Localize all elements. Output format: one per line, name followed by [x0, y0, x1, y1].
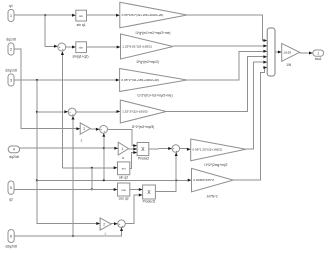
node d2q1 branch	[36, 79, 38, 81]
node dq2 junction	[103, 147, 105, 149]
svg-text:4: 4	[13, 148, 15, 152]
wire G6 out to Mux in6	[233, 68, 265, 181]
arrow into G6	[188, 179, 192, 182]
svg-text:dq1/dt: dq1/dt	[6, 38, 15, 42]
svg-text:l1*g*(m1+m2+mp/2+me): l1*g*(m1+m2+mp/2+me)	[136, 31, 171, 35]
arrow into Sum2 left	[64, 110, 68, 113]
wire gain L to Sum4	[111, 223, 114, 225]
svg-text:2: 2	[103, 222, 105, 226]
sum Sum2	[68, 108, 76, 116]
node d2q1 to J line	[36, 179, 38, 181]
wire cos q2 to Product1	[130, 189, 139, 191]
arrow into gain l1	[114, 147, 118, 150]
svg-text:sin q2: sin q2	[119, 175, 128, 179]
svg-text:6: 6	[10, 234, 12, 238]
gain G2 l2*g	[121, 34, 174, 59]
arrow into Mux in6	[263, 66, 267, 69]
wire G1 out to Mux in1	[187, 15, 264, 41]
svg-text:dq2/dt: dq2/dt	[9, 155, 18, 159]
wire gain 1/N to outport	[300, 52, 310, 54]
svg-text:sin: sin	[79, 14, 83, 18]
wire sin q1 to gain G1	[87, 14, 117, 16]
arrow into Sum2 bottom	[72, 116, 75, 120]
arrow into Sum3 bottom	[102, 133, 105, 137]
wire Sum3 to Product in1	[108, 129, 134, 145]
wire d2q1 into Sum2	[37, 111, 65, 113]
arrow into Product1 in2	[139, 194, 143, 197]
wire dq2 drop to J line	[103, 148, 105, 180]
arrow into Sum5 left	[168, 147, 172, 150]
svg-text:1: 1	[121, 147, 123, 151]
wire G2 out to Mux in2	[173, 45, 264, 47]
svg-text:Product1: Product1	[143, 200, 156, 204]
sum Sum4	[118, 220, 126, 228]
wire sin(q1+q2) to gain G2	[87, 46, 118, 48]
wire Product out to Sum5	[149, 148, 169, 151]
arrow into Product in1	[133, 144, 137, 147]
wire Mux to gain 1/N	[275, 51, 278, 53]
arrow into gain L	[96, 222, 100, 225]
svg-text:cos q2: cos q2	[119, 197, 129, 201]
wire d2q1 to gain G3	[14, 79, 116, 81]
svg-text:1: 1	[10, 14, 12, 18]
svg-text:+: +	[72, 112, 74, 116]
wire gain 2a to Sum3	[90, 128, 96, 130]
gain l1	[118, 142, 128, 155]
sum Sum5	[172, 145, 180, 153]
svg-text:0.95*1.25*(32+165/2): 0.95*1.25*(32+165/2)	[193, 147, 223, 151]
node q2 line junction	[91, 188, 93, 190]
node q1 branch	[44, 14, 46, 16]
arrow into sin q1	[72, 14, 76, 17]
svg-text:1/165: 1/165	[283, 50, 291, 54]
svg-text:0.95*9.81*(32+165+400/2+20): 0.95*9.81*(32+165+400/2+20)	[122, 13, 164, 17]
arrow into Mux in3	[263, 50, 267, 53]
svg-text:l1*l2*(2mg+m)/2: l1*l2*(2mg+m)/2	[205, 163, 228, 167]
svg-text:2: 2	[83, 127, 85, 131]
block sin q2	[118, 162, 130, 175]
inport 2 dq1/dt	[8, 43, 14, 55]
svg-text:1: 1	[317, 52, 319, 56]
wire dq2 to gain l1	[20, 147, 115, 149]
wire Sum1 to sin(q1+q2)	[66, 46, 73, 48]
node J line riser	[175, 179, 177, 181]
gain L 2b	[100, 218, 111, 230]
node J line dq2	[103, 179, 105, 181]
arrow into cos q2	[114, 188, 118, 191]
sum Sum3	[100, 125, 108, 133]
svg-text:l2^2*(m2+mp/3): l2^2*(m2+mp/3)	[132, 125, 155, 129]
svg-text:l1: l1	[122, 156, 125, 160]
arrow into Sum4 left	[114, 222, 118, 225]
arrow into Product1 in1	[139, 188, 143, 191]
svg-text:l1^2*(m1+m2+mp/2+me): l1^2*(m1+m2+mp/2+me)	[137, 94, 172, 98]
svg-text:Product: Product	[138, 157, 149, 161]
gain G3 l1^2	[120, 69, 187, 92]
block sin q1	[76, 10, 87, 21]
gain 1/N	[282, 43, 300, 61]
sum Sum1	[58, 43, 66, 51]
arrow into sin(q1+q2)	[72, 46, 76, 49]
gain G4 l2^2	[120, 100, 166, 123]
arrow into G4	[117, 110, 121, 113]
svg-text:3: 3	[10, 78, 12, 82]
svg-text:sin: sin	[79, 46, 83, 50]
svg-text:5: 5	[10, 186, 12, 190]
wire q2 to sin q2	[62, 167, 114, 169]
arrow into Mux in1	[263, 39, 267, 42]
wire J line d2q1 to gain G6	[37, 179, 188, 181]
gain G6 Jm*N^2	[192, 168, 234, 191]
outport 1 tau1	[313, 50, 324, 56]
wire d2q1 bus down to gain L	[37, 80, 97, 224]
mux Mux	[267, 28, 275, 76]
svg-text:q1: q1	[9, 4, 13, 8]
arrow into Mux in5	[263, 61, 267, 64]
block Product1	[143, 185, 156, 199]
arrow into G2	[117, 46, 121, 49]
wire Sum4 to Product1 in2	[125, 195, 139, 224]
arrow into Product in3	[133, 151, 137, 154]
inport 6 d2q2/dt	[8, 230, 14, 243]
wire d2q2 line into Sum4	[14, 231, 121, 236]
inport 1 q1	[8, 10, 14, 22]
gain G5 l1*l2	[191, 139, 246, 161]
svg-text:+: +	[121, 224, 123, 228]
wire q1 to sin q1	[14, 14, 72, 16]
wire gain l1 to Product in2	[129, 148, 134, 150]
wire Sum5 to gain G5	[180, 148, 188, 150]
wire Product1 out riser to Sum5	[155, 156, 176, 191]
arrow into Mux in4	[263, 55, 267, 58]
arrow into Sum4 bottom	[120, 228, 123, 232]
svg-text:+: +	[104, 130, 106, 134]
arrow into Product in2	[133, 148, 137, 151]
svg-text:tau1: tau1	[315, 57, 322, 61]
wire q2 riser into Sum1	[61, 55, 63, 168]
arrow into gain 1/N	[278, 51, 282, 54]
wire d2q2 riser into Sum2	[72, 120, 74, 236]
block sin(q1+q2)	[76, 42, 87, 53]
wire Sum2 to gain G4	[76, 111, 117, 113]
svg-text:sin: sin	[122, 167, 126, 171]
wire q2 to cos q2	[14, 188, 114, 190]
inport 5 q2	[8, 181, 14, 194]
gain 2a	[80, 123, 90, 134]
block Product	[137, 143, 149, 156]
wire sin q2 to Product in3	[130, 153, 134, 169]
arrow into Sum1 left	[54, 45, 58, 48]
svg-text:+: +	[176, 149, 178, 153]
wire G4 out to Mux in4	[166, 57, 263, 112]
arrow into Sum5 bottom	[175, 152, 178, 156]
node d2q2 junction	[72, 235, 74, 237]
node q2 on sin feed	[91, 167, 93, 169]
arrow into G3	[116, 79, 120, 82]
svg-text:q2: q2	[9, 198, 13, 202]
svg-text:0.95^2*(32+165+400/2+20): 0.95^2*(32+165+400/2+20)	[121, 78, 159, 82]
svg-text:l2*g*(m2+mp/2): l2*g*(m2+mp/2)	[137, 60, 159, 64]
wire G3 out to Mux in3	[187, 51, 264, 80]
svg-text:+: +	[59, 45, 61, 49]
svg-text:sin q1: sin q1	[77, 23, 86, 27]
arrow into sin q2	[114, 166, 118, 169]
svg-text:1.25^2*(32+165/3): 1.25^2*(32+165/3)	[122, 110, 147, 114]
inport 4 dq2/dt	[8, 146, 19, 153]
svg-text:+: +	[62, 48, 64, 52]
svg-text:+: +	[69, 110, 71, 114]
wire q2 riser short	[91, 168, 93, 190]
svg-text:0.00383*165^2: 0.00383*165^2	[193, 178, 214, 182]
wire q1 down to Sum1	[45, 15, 54, 46]
svg-text:cos: cos	[121, 188, 126, 192]
wire dq1 down and to gain 2a	[14, 49, 77, 129]
svg-text:Jm*N^2: Jm*N^2	[206, 195, 217, 199]
arrow into outport tau1	[309, 52, 313, 55]
node d2q1 to Sum2	[36, 111, 38, 113]
inport 3 d2q1/dt	[8, 74, 14, 86]
arrow into G1	[116, 14, 120, 17]
svg-text:+: +	[119, 222, 121, 226]
svg-text:d2q1/dt: d2q1/dt	[5, 69, 16, 73]
wire G5 out to Mux in5	[246, 62, 264, 149]
svg-text:+: +	[101, 127, 103, 131]
svg-text:sin(q1+q2): sin(q1+q2)	[72, 55, 88, 59]
svg-text:1.25*9.81*(32+165/2): 1.25*9.81*(32+165/2)	[122, 45, 152, 49]
arrow into gain 2a	[76, 127, 80, 130]
svg-text:2: 2	[10, 47, 12, 51]
wire dq2 riser into Sum3	[103, 137, 105, 148]
svg-text:1/N: 1/N	[286, 63, 292, 67]
arrow into Sum3 left	[96, 128, 100, 131]
arrow into G5	[187, 148, 191, 151]
svg-text:+: +	[173, 147, 175, 151]
svg-text:d2q2/dt: d2q2/dt	[6, 245, 17, 249]
gain G1 l1*g	[120, 2, 187, 28]
arrow into Mux in2	[263, 44, 267, 47]
block cos q2	[118, 183, 130, 196]
arrow into Sum1 bottom	[61, 51, 64, 55]
